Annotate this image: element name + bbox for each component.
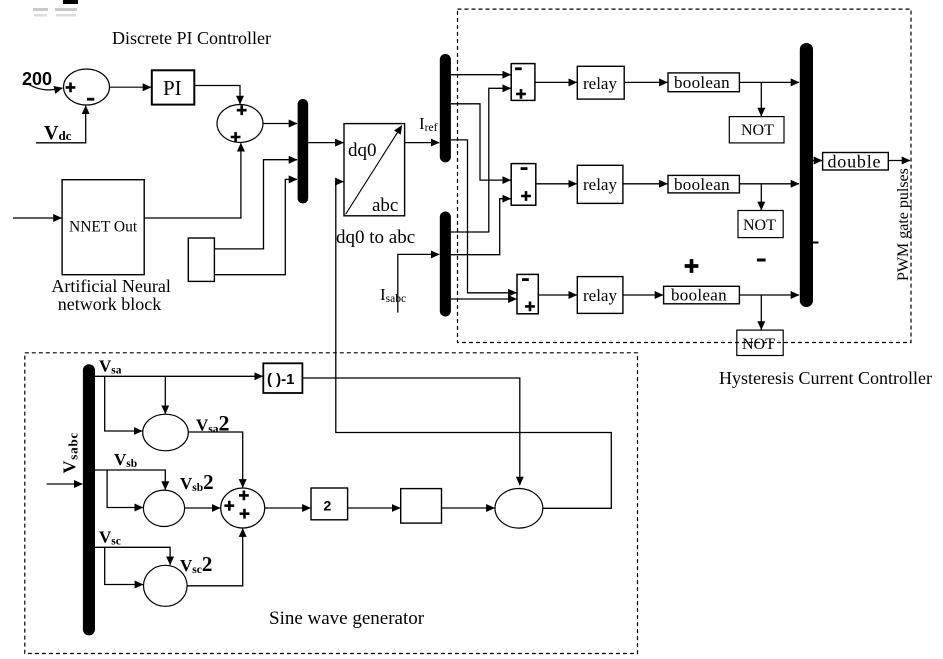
wire relay1 to boolean1 — [624, 81, 667, 83]
demux Vsabc — [83, 364, 95, 635]
wire delay out 1 to mux M1 — [214, 160, 297, 249]
svg-text:NOT: NOT — [743, 217, 776, 234]
wire Vsb to mult2 top — [95, 470, 165, 490]
svg-text:boolean: boolean — [674, 175, 730, 194]
block dq0 to abc — [344, 124, 405, 216]
block unit delay small — [188, 238, 214, 281]
wire mult3 to sum SS bottom — [187, 529, 243, 586]
wire Vsc to mult3 top — [95, 547, 170, 564]
svg-text:PWM gate pulses: PWM gate pulses — [895, 168, 912, 281]
label minus — [757, 259, 766, 262]
demux Isabc — [440, 212, 451, 317]
wire sum S1 to PI — [110, 86, 151, 88]
wire Isabc b to sum SB — [451, 199, 511, 255]
block PI — [152, 70, 195, 104]
svg-text:NOT: NOT — [741, 122, 774, 139]
sum SB — [511, 164, 536, 206]
wire branch to NOT2 — [760, 184, 762, 210]
wire Iref b to sum SB — [451, 104, 511, 180]
svg-text:double: double — [828, 151, 882, 171]
svg-text:relay: relay — [583, 175, 617, 194]
svg-text:NNET Out: NNET Out — [69, 219, 138, 236]
svg-text:NOT: NOT — [742, 336, 775, 353]
wire mux M1 to dq0 — [308, 142, 343, 144]
wire boolean1 to mux PWM — [739, 81, 799, 83]
wire mult1 to sum SS top — [188, 432, 242, 487]
wire dq0 to demux Iref — [405, 142, 440, 144]
wire boolean2 to mux PWM — [739, 183, 799, 185]
mult1 — [143, 414, 189, 451]
wire relay2 to boolean2 — [623, 183, 668, 185]
svg-text:200: 200 — [22, 69, 52, 89]
sine wave generator dashed box — [25, 353, 638, 654]
block boolean2 — [668, 175, 739, 193]
svg-text:relay: relay — [583, 74, 617, 93]
svg-text:abc: abc — [372, 195, 398, 216]
block relay3 — [577, 277, 623, 314]
wire 200 to sum S1 — [28, 84, 63, 90]
block NNET Out — [62, 180, 144, 275]
tick minus on mux PWM — [811, 242, 819, 244]
wire boolean3 to mux PWM — [739, 294, 799, 296]
block double — [823, 153, 889, 171]
wire delay out 2 to mux M1 — [214, 179, 297, 274]
cropped figure fragment at top — [63, 0, 78, 4]
block gain 2 — [311, 488, 348, 520]
block NOT2 — [738, 211, 783, 238]
wire mux PWM to double — [813, 160, 822, 162]
sum SA — [511, 64, 535, 101]
wire double to output — [888, 160, 910, 162]
svg-text:PI: PI — [163, 76, 182, 100]
wire sum S2 to mux M1 — [263, 123, 297, 125]
wire Vsc branch to mult3 left — [105, 547, 143, 584]
wire Vsb branch to mult2 left — [107, 470, 143, 508]
wire block B2 to mult4 — [442, 507, 495, 509]
block relay1 — [577, 66, 624, 99]
svg-text:network block: network block — [58, 294, 161, 314]
wire gain2 to block B2 — [348, 507, 401, 509]
wire PI to sum S2 — [194, 86, 240, 105]
mult2 — [143, 490, 184, 526]
wire sum SS to gain2 — [265, 507, 311, 509]
block B2 empty — [401, 489, 442, 523]
label plus — [685, 259, 699, 273]
svg-text:( )-1: ( )-1 — [267, 371, 295, 388]
wire branch to NOT1 — [760, 82, 762, 116]
block ( )-1 — [263, 363, 302, 393]
mult3 — [144, 565, 188, 606]
wire Vsa to ()-1 — [95, 375, 263, 377]
svg-text:Sine wave generator: Sine wave generator — [269, 608, 425, 629]
mux M1 — [298, 99, 309, 204]
sum S2 — [217, 105, 263, 143]
wire relay3 to boolean3 — [623, 294, 663, 296]
wire input to demux Vsabc — [47, 483, 83, 485]
wire sum SB to relay2 — [536, 183, 577, 185]
block NOT3 — [737, 330, 783, 355]
sum SS — [221, 488, 265, 528]
svg-text:relay: relay — [583, 286, 617, 305]
wire Vdc to sum S1 — [36, 106, 86, 143]
mult4 — [495, 489, 543, 529]
wire mult2 to sum SS left — [185, 507, 221, 509]
block boolean1 — [668, 73, 739, 92]
block boolean3 — [664, 286, 740, 304]
wire NNET Out to sum S2 — [144, 143, 241, 218]
mux PWM — [800, 43, 813, 307]
sum S1 — [64, 69, 110, 105]
wire Iref c to sum SC — [451, 140, 517, 293]
wire Isabc stub to demux — [398, 254, 439, 312]
svg-text:Artificial Neural: Artificial Neural — [51, 276, 170, 296]
wire Vsa branch to mult1 left — [105, 376, 142, 431]
svg-text:boolean: boolean — [674, 73, 730, 92]
svg-text:Hysteresis Current Controller: Hysteresis Current Controller — [719, 368, 932, 388]
svg-text:Discrete PI Controller: Discrete PI Controller — [112, 28, 271, 48]
wire mult4 feedback to dq0 input — [336, 182, 612, 509]
svg-text:dq0 to abc: dq0 to abc — [336, 227, 415, 248]
svg-text:2: 2 — [324, 498, 332, 514]
wire Vsa branch to mult1 top — [164, 376, 166, 413]
hysteresis dashed box — [458, 9, 912, 342]
wire sum SC to relay3 — [538, 294, 576, 296]
block relay2 — [577, 165, 623, 203]
wire sum SA to relay1 — [535, 81, 577, 83]
block NOT1 — [729, 117, 784, 143]
wire ()-1 to mult4 top — [302, 378, 519, 485]
wire Isabc a to sum SA — [451, 88, 511, 232]
svg-text:boolean: boolean — [671, 286, 727, 305]
demux Iref — [440, 54, 451, 162]
svg-text:dq0: dq0 — [348, 140, 377, 161]
wire Isabc c to sum SC — [451, 298, 517, 300]
wire input to NNET — [13, 217, 62, 219]
wire Iref a to sum SA — [451, 74, 511, 76]
wire branch to NOT3 — [760, 295, 762, 330]
sum SC — [517, 274, 538, 313]
